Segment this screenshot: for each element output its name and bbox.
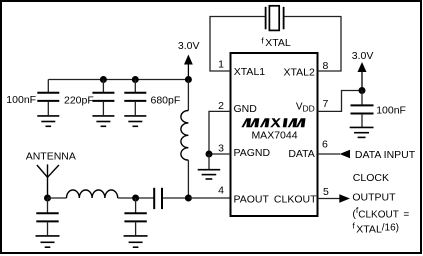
ground xyxy=(198,170,221,179)
svg-text:100nF: 100nF xyxy=(376,105,406,117)
svg-text:2: 2 xyxy=(218,100,224,112)
wire L2 to C6 xyxy=(118,197,154,199)
svg-text:680pF: 680pF xyxy=(151,95,181,107)
svg-text:XTAL1: XTAL1 xyxy=(234,66,265,78)
svg-text:GND: GND xyxy=(234,103,258,115)
svg-text:CLOCK: CLOCK xyxy=(353,172,389,184)
crystal Y1 xyxy=(266,6,284,31)
ground xyxy=(36,236,60,247)
ground xyxy=(124,236,148,247)
svg-text:CLKOUT: CLKOUT xyxy=(274,194,317,206)
wire C6 to PAOUT node xyxy=(163,197,188,199)
svg-text:PAGND: PAGND xyxy=(234,147,271,159)
node PAOUT junction xyxy=(185,195,192,202)
svg-text:PAOUT: PAOUT xyxy=(234,194,270,206)
svg-text:MAX7044: MAX7044 xyxy=(251,130,297,142)
node antenna junction xyxy=(44,195,51,202)
capacitor C3 680pF xyxy=(124,80,146,116)
op-amp U1 MAX7044 body xyxy=(231,53,318,216)
arrow clock output xyxy=(339,194,350,203)
wire pin 2 xyxy=(209,111,231,154)
inductor L2 matching xyxy=(67,190,118,198)
svg-text:4: 4 xyxy=(218,185,224,197)
wire pin 7 to VDD node xyxy=(318,91,363,112)
node on rail xyxy=(100,76,107,83)
wire to ground xyxy=(208,154,210,169)
capacitor C2 220pF xyxy=(92,80,114,116)
svg-text:DATA INPUT: DATA INPUT xyxy=(355,149,416,161)
capacitor C6 series coupling xyxy=(154,188,162,209)
ground xyxy=(350,127,374,137)
svg-text:1: 1 xyxy=(218,59,224,71)
capacitor C4 shunt at antenna xyxy=(36,198,58,235)
wire antenna to L2 xyxy=(48,197,67,199)
wire pin 3 xyxy=(209,153,231,155)
logo MAXIM xyxy=(241,118,305,127)
svg-text:100nF: 100nF xyxy=(6,94,36,106)
node shunt cap junction xyxy=(132,195,139,202)
svg-text:ANTENNA: ANTENNA xyxy=(26,151,76,163)
capacitor C5 shunt mid xyxy=(124,198,146,235)
svg-text:6: 6 xyxy=(322,139,328,151)
svg-text:3: 3 xyxy=(218,143,224,155)
svg-text:OUTPUT: OUTPUT xyxy=(352,192,396,204)
ground xyxy=(124,116,146,126)
svg-text:VDD: VDD xyxy=(296,102,315,114)
inductor L1 RF choke xyxy=(181,80,189,199)
ground xyxy=(37,116,59,126)
wire pin 5 CLKOUT xyxy=(318,198,340,200)
wire pin 6 DATA xyxy=(318,153,341,155)
node pin2/3 junction xyxy=(206,151,213,158)
wire top supply rail xyxy=(48,79,188,81)
svg-text:XTAL2: XTAL2 xyxy=(283,67,314,79)
capacitor C1 100nF xyxy=(37,80,59,116)
wire crystal to pin 8 xyxy=(284,17,341,72)
capacitor C7 100nF decoupling xyxy=(351,91,374,128)
svg-text:3.0V: 3.0V xyxy=(178,40,200,52)
svg-text:7: 7 xyxy=(323,98,329,110)
ground xyxy=(92,116,114,126)
wire PAOUT node to pin 4 xyxy=(188,197,230,199)
power 3.0V arrow right xyxy=(352,50,374,91)
svg-text:3.0V: 3.0V xyxy=(352,50,374,62)
node VDD junction xyxy=(359,87,366,94)
svg-text:8: 8 xyxy=(323,60,329,72)
svg-text:DATA: DATA xyxy=(288,148,314,160)
node supply junction xyxy=(185,76,192,83)
antenna xyxy=(37,164,59,198)
power 3.0V arrow left xyxy=(178,40,200,80)
wire pin 1 to crystal loop xyxy=(210,17,265,72)
svg-text:XTAL: XTAL xyxy=(265,37,291,49)
node on rail xyxy=(132,76,139,83)
svg-text:5: 5 xyxy=(323,186,329,198)
arrow data input xyxy=(340,150,351,159)
svg-text:220pF: 220pF xyxy=(64,95,94,107)
